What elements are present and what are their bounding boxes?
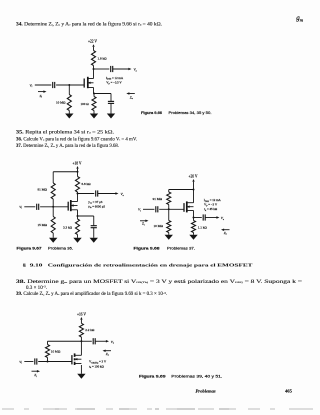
svg-text:2.2 kΩ: 2.2 kΩ bbox=[85, 328, 95, 332]
fig 9.69 gate node bbox=[47, 361, 49, 363]
fig 9.69 wire input cap to gate bbox=[38, 361, 72, 363]
fig 9.67 top junction node bbox=[77, 171, 79, 173]
fig 9.66 wire RG to ground bbox=[68, 111, 70, 114]
fig 9.69 capacitor C2 output bbox=[92, 338, 94, 344]
fig 9.68 resistor R1 91 MOhm bbox=[167, 192, 171, 205]
fig 9.66 wire drain to output cap bbox=[94, 68, 110, 70]
fig 9.68 wire R2 to ground bbox=[168, 233, 170, 235]
svg-text:Zo: Zo bbox=[130, 95, 134, 100]
svg-text:100 Ω: 100 Ω bbox=[81, 102, 90, 106]
svg-text:rd = 45 kΩ: rd = 45 kΩ bbox=[204, 207, 218, 212]
fig 9.67 wire gate node to R2 bbox=[52, 207, 54, 217]
svg-text:Zi: Zi bbox=[34, 373, 37, 378]
svg-text:+22 V: +22 V bbox=[88, 40, 97, 44]
svg-text:Zi: Zi bbox=[40, 94, 43, 99]
fig 9.68 gate node bbox=[168, 208, 170, 210]
fig 9.66 resistor RS 100 Ohm bbox=[92, 97, 96, 111]
fig 9.66 resistor RG 10 MOhm bbox=[67, 95, 71, 111]
fig 9.67 supply arrow bbox=[76, 166, 78, 169]
fig 9.66 wire source to bypass cap bbox=[94, 93, 111, 95]
fig 9.67 wire R2 to ground bbox=[52, 233, 54, 238]
fig 9.67 wire input cap to gate bbox=[40, 206, 68, 208]
fig 9.68 transistor Q3 JFET bbox=[183, 203, 185, 212]
fig 9.68 source node bbox=[193, 217, 195, 219]
fig 9.67 capacitor C1 input bbox=[36, 204, 38, 210]
fig 9.68 wire source lead down bbox=[193, 211, 195, 221]
svg-text:Vo: Vo bbox=[111, 340, 115, 345]
fig 9.66 capacitor C1 input bbox=[52, 82, 54, 88]
svg-text:Vi: Vi bbox=[19, 205, 22, 210]
fig 9.69 wire drain node to output cap bbox=[81, 340, 91, 342]
svg-text:3.3 kΩ: 3.3 kΩ bbox=[63, 225, 73, 229]
fig 9.67 capacitor C2 output bbox=[95, 190, 97, 196]
fig 9.67 wire top junction to R1 branch bbox=[53, 171, 77, 173]
fig 9.68 resistor RS 1.1 kOhm bbox=[191, 221, 195, 233]
svg-text:15 MΩ: 15 MΩ bbox=[38, 223, 48, 227]
fig 9.67 resistor RD 6.8 kOhm bbox=[75, 177, 79, 193]
svg-text:Figura 9.69: Figura 9.69 bbox=[139, 375, 166, 379]
fig 9.67 wire output cap to Vo bbox=[98, 193, 116, 195]
fig 9.69 wire RD to drain node bbox=[80, 337, 82, 355]
fig 9.68 capacitor C2 output bbox=[202, 214, 204, 220]
fig 9.66 wire RS to ground bbox=[93, 111, 95, 114]
svg-text:1.1 kΩ: 1.1 kΩ bbox=[198, 226, 208, 230]
page bottom scan artifact line bbox=[2, 408, 318, 410]
fig 9.69 resistor RF 10 MOhm feedback bbox=[45, 345, 49, 358]
fig 9.66 drain node bbox=[93, 68, 95, 70]
fig 9.67 wire Vi to input cap bbox=[24, 206, 35, 208]
fig 9.68 ground RS bbox=[189, 235, 197, 240]
fig 9.68 Zi arrow bbox=[140, 220, 146, 222]
svg-text:Problemas 39, 40 y 51.: Problemas 39, 40 y 51. bbox=[171, 375, 222, 379]
fig 9.69 wire RF to gate node bbox=[47, 358, 49, 362]
svg-text:Vi: Vi bbox=[19, 360, 22, 365]
svg-text:0.3 × 10−3.: 0.3 × 10−3. bbox=[26, 286, 47, 291]
fig 9.68 Zo arrow bbox=[223, 229, 229, 231]
fig 9.67 resistor R1 91 MOhm bbox=[51, 183, 55, 199]
fig 9.67 wire RD to drain lead bbox=[77, 192, 79, 202]
fig 9.68 capacitor C1 input bbox=[155, 206, 157, 212]
fig 9.68 top junction node bbox=[193, 189, 195, 191]
svg-text:gm: gm bbox=[296, 14, 304, 22]
fig 9.66 ground CS bbox=[107, 114, 115, 119]
svg-text:Zo: Zo bbox=[224, 231, 228, 236]
fig 9.68 wire output cap to Vo bbox=[205, 217, 217, 219]
svg-text:38. Determine gm para un MOSFE: 38. Determine gm para un MOSFET si VGS(T… bbox=[16, 280, 303, 285]
svg-text:+16 V: +16 V bbox=[77, 312, 86, 316]
svg-text:Problemas 34, 35 y 50.: Problemas 34, 35 y 50. bbox=[169, 111, 212, 115]
fig 9.68 supply arrow bbox=[192, 179, 194, 182]
svg-text:34. Determine Zi, Zo y Av para: 34. Determine Zi, Zo y Av para la red de… bbox=[16, 23, 162, 28]
fig 9.67 wire RS to ground bbox=[77, 235, 79, 238]
fig 9.66 wire input cap to gate bbox=[56, 84, 84, 86]
fig 9.67 wire source to bypass cap bbox=[78, 215, 94, 217]
svg-text:36. Calcule Vo para la red de: 36. Calcule Vo para la red de la figura … bbox=[16, 137, 137, 142]
fig 9.68 resistor R2 10 MOhm bbox=[167, 221, 171, 233]
svg-text:6.8 kΩ: 6.8 kΩ bbox=[82, 182, 92, 186]
svg-text:VP = −3.5 V: VP = −3.5 V bbox=[106, 81, 122, 86]
fig 9.69 ground bbox=[77, 374, 85, 379]
svg-text:1.8 kΩ: 1.8 kΩ bbox=[98, 57, 108, 61]
fig 9.69 wire feedback top bbox=[48, 340, 82, 342]
fig 9.67 wire source lead down bbox=[77, 210, 79, 219]
svg-text:+18 V: +18 V bbox=[72, 161, 81, 165]
svg-text:Figura 9.68: Figura 9.68 bbox=[134, 247, 160, 251]
fig 9.69 resistor RD 2.2 kOhm bbox=[79, 323, 83, 337]
svg-text:rd = 100 kΩ: rd = 100 kΩ bbox=[89, 364, 104, 369]
svg-text:Vi: Vi bbox=[30, 83, 33, 88]
fig 9.69 Zo arrow bbox=[105, 350, 111, 352]
svg-text:Figura 9.67: Figura 9.67 bbox=[17, 246, 42, 250]
fig 9.67 wire R1 to gate node bbox=[52, 199, 54, 207]
fig 9.67 resistor RS 3.3 kOhm bbox=[75, 219, 79, 235]
svg-text:Zi: Zi bbox=[142, 222, 145, 227]
svg-text:10 MΩ: 10 MΩ bbox=[51, 350, 61, 354]
fig 9.69 wire Vi to input cap bbox=[24, 361, 33, 363]
svg-text:39. Calcule Zi, Zo y Av para e: 39. Calcule Zi, Zo y Av para el amplific… bbox=[16, 292, 167, 297]
fig 9.67 gate node bbox=[52, 206, 54, 208]
fig 9.69 transistor Q4 E-MOSFET bbox=[71, 355, 73, 364]
fig 9.66 Zi arrow bbox=[38, 91, 44, 93]
fig 9.68 wire RS to ground bbox=[193, 233, 195, 235]
fig 9.66 capacitor C2 output bbox=[110, 66, 112, 72]
fig 9.68 wire R1 to gate node bbox=[168, 205, 170, 210]
fig 9.66 wire gate node to RG bbox=[68, 85, 70, 95]
svg-text:Vo: Vo bbox=[134, 68, 138, 73]
fig 9.66 resistor RD 1.8 kOhm bbox=[91, 51, 95, 66]
fig 9.66 source node bbox=[93, 93, 95, 95]
fig 9.69 wire output cap to Vo bbox=[95, 340, 106, 342]
svg-text:Problemas 37.: Problemas 37. bbox=[167, 247, 195, 251]
fig 9.69 capacitor C1 input bbox=[34, 358, 36, 364]
svg-text:Problemas: Problemas bbox=[196, 389, 216, 394]
fig 9.66 gate node bbox=[68, 84, 70, 86]
fig 9.68 wire source to output cap bbox=[194, 217, 202, 219]
fig 9.66 capacitor CS bypass bbox=[108, 100, 114, 102]
fig 9.67 capacitor CS bypass bbox=[91, 225, 97, 227]
svg-text:+20 V: +20 V bbox=[188, 174, 197, 178]
fig 9.69 drain node bbox=[80, 340, 82, 342]
svg-text:Vo: Vo bbox=[121, 192, 125, 197]
fig 9.69 supply arrow bbox=[80, 317, 82, 320]
svg-text:Figura 9.66: Figura 9.66 bbox=[141, 111, 162, 115]
fig 9.67 resistor R2 15 MOhm bbox=[51, 217, 55, 234]
fig 9.66 wire bypass cap to ground bbox=[110, 104, 112, 114]
fig 9.68 ground R2 bbox=[165, 235, 173, 240]
fig 9.68 wire top junction to R1 branch bbox=[169, 189, 194, 191]
fig 9.66 wire source node to RS bbox=[93, 94, 95, 97]
fig 9.66 wire Vi to input cap bbox=[35, 84, 52, 86]
svg-text:37. Determine Zi, Zo y Av para: 37. Determine Zi, Zo y Av para la red de… bbox=[16, 144, 119, 149]
fig 9.66 wire source lead down bbox=[93, 88, 95, 94]
svg-text:10 MΩ: 10 MΩ bbox=[154, 224, 164, 228]
svg-text:91 MΩ: 91 MΩ bbox=[38, 188, 48, 192]
svg-text:Vi: Vi bbox=[138, 208, 141, 213]
fig 9.67 wire drain node to output cap bbox=[78, 193, 95, 195]
fig 9.67 transistor Q2 D-MOSFET bbox=[67, 202, 69, 211]
svg-text:35. Repita el problema 34 si r: 35. Repita el problema 34 si rd = 25 kΩ. bbox=[16, 131, 114, 136]
fig 9.67 drain node bbox=[77, 193, 79, 195]
svg-text:Vo: Vo bbox=[221, 216, 225, 221]
fig 9.68 wire input cap to gate bbox=[159, 208, 184, 210]
svg-text:Zo: Zo bbox=[106, 352, 110, 357]
fig 9.67 ground CS bbox=[90, 238, 98, 243]
fig 9.67 ground R2 bbox=[49, 238, 57, 243]
fig 9.66 wire RD to drain node bbox=[93, 66, 95, 79]
svg-text:Problema 36.: Problema 36. bbox=[48, 246, 73, 250]
fig 9.66 transistor Q1 D-MOSFET bbox=[83, 79, 85, 88]
fig 9.67 wire bypass cap to ground bbox=[93, 228, 95, 238]
svg-text:yfs = 6000 μS: yfs = 6000 μS bbox=[88, 204, 105, 209]
fig 9.69 wire source to ground bbox=[80, 365, 82, 374]
fig 9.66 ground RG bbox=[65, 114, 73, 119]
fig 9.66 ground RS bbox=[90, 114, 98, 119]
fig 9.68 wire Vi to input cap bbox=[143, 208, 154, 210]
svg-text:§ 9.10 Configuración de ret: § 9.10 Configuración de retroalimentació… bbox=[23, 263, 253, 268]
fig 9.67 ground RS bbox=[73, 238, 81, 243]
fig 9.69 Zi arrow bbox=[32, 370, 38, 372]
fig 9.66 wire cap to Vo bbox=[113, 68, 129, 70]
svg-text:91 MΩ: 91 MΩ bbox=[153, 197, 163, 201]
fig 9.68 wire gate node to R2 bbox=[168, 209, 170, 220]
svg-text:465: 465 bbox=[285, 389, 293, 394]
fig 9.67 source node bbox=[77, 215, 79, 217]
fig 9.66 supply arrow bbox=[92, 44, 94, 47]
fig 9.66 Zo arrow bbox=[129, 93, 135, 95]
svg-text:10 MΩ: 10 MΩ bbox=[56, 101, 66, 105]
